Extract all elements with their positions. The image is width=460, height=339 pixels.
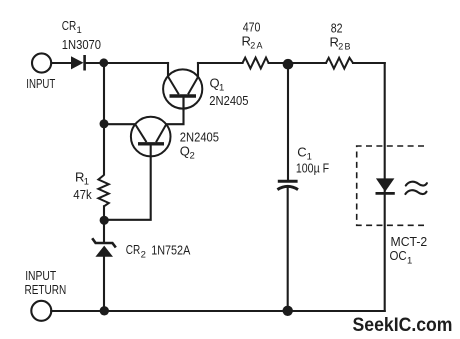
svg-text:100µ F: 100µ F	[296, 160, 329, 175]
svg-text:1: 1	[77, 25, 82, 36]
svg-text:CR: CR	[126, 242, 141, 257]
svg-text:INPUT: INPUT	[25, 269, 56, 283]
resistor R1	[98, 175, 108, 206]
svg-text:1N3070: 1N3070	[62, 37, 101, 52]
wire Q2 base lead	[104, 146, 151, 220]
svg-text:2: 2	[141, 249, 146, 260]
wire right vertical	[384, 63, 386, 311]
wire Q1 left stub	[167, 63, 169, 77]
wire R2A to R2B	[269, 62, 326, 64]
approx-equals light symbol	[405, 182, 427, 194]
svg-text:82: 82	[331, 21, 343, 35]
svg-text:OC: OC	[390, 249, 407, 263]
optocoupler dashed box OC1	[357, 146, 424, 225]
wire capacitor branch bottom	[287, 188, 289, 311]
resistor R2B	[326, 58, 353, 69]
svg-text:C: C	[297, 145, 306, 160]
transistor Q1	[163, 69, 202, 108]
svg-text:CR: CR	[62, 18, 77, 33]
svg-text:Q: Q	[180, 144, 190, 159]
wire bottom rail	[51, 310, 385, 312]
svg-text:2N2405: 2N2405	[180, 129, 219, 144]
diode CR1	[71, 55, 85, 71]
wire node C to zener	[103, 221, 105, 243]
svg-text:2: 2	[190, 151, 195, 162]
svg-text:2A: 2A	[250, 41, 263, 51]
wire node B to R1	[103, 124, 105, 175]
svg-text:MCT-2: MCT-2	[391, 235, 428, 249]
svg-text:2N2405: 2N2405	[209, 93, 248, 108]
wire zener to bottom	[103, 257, 105, 311]
svg-text:2B: 2B	[338, 42, 351, 52]
svg-text:1N752A: 1N752A	[151, 242, 190, 257]
input return terminal	[31, 301, 51, 321]
svg-text:1: 1	[407, 255, 412, 266]
LED diode of OC1	[376, 178, 395, 193]
svg-text:RETURN: RETURN	[25, 283, 67, 297]
input terminal	[32, 53, 51, 72]
svg-text:INPUT: INPUT	[26, 77, 55, 91]
svg-text:SeekIC.com: SeekIC.com	[353, 314, 453, 336]
node B	[100, 119, 109, 128]
wire left vertical node A to node B	[103, 63, 105, 124]
wire diode to Q1 left stub	[85, 62, 168, 64]
wire R2B to right corner	[353, 62, 385, 64]
node C	[100, 216, 109, 225]
svg-text:1: 1	[84, 176, 89, 187]
zener diode CR2	[92, 238, 116, 257]
wire Q2 left lead	[104, 123, 135, 125]
node bottom capacitor junction	[283, 306, 293, 316]
wire capacitor branch top	[287, 63, 289, 181]
wire R1 to node C	[103, 206, 105, 220]
svg-text:47k: 47k	[73, 187, 92, 202]
resistor R2A	[243, 58, 269, 69]
capacitor C1	[277, 181, 298, 189]
node top junction	[283, 59, 294, 70]
node bottom-left junction	[100, 306, 109, 315]
svg-text:470: 470	[243, 20, 261, 34]
wire input to diode	[51, 62, 71, 64]
wire Q2 right lead to Q1 base	[166, 97, 183, 124]
transistor Q2	[131, 117, 171, 157]
wire Q1 to R2A	[198, 62, 243, 64]
wire Q1 base lead	[182, 97, 184, 110]
node A	[99, 58, 108, 67]
wire Q1 right stub	[197, 63, 199, 77]
svg-text:1: 1	[219, 83, 224, 94]
